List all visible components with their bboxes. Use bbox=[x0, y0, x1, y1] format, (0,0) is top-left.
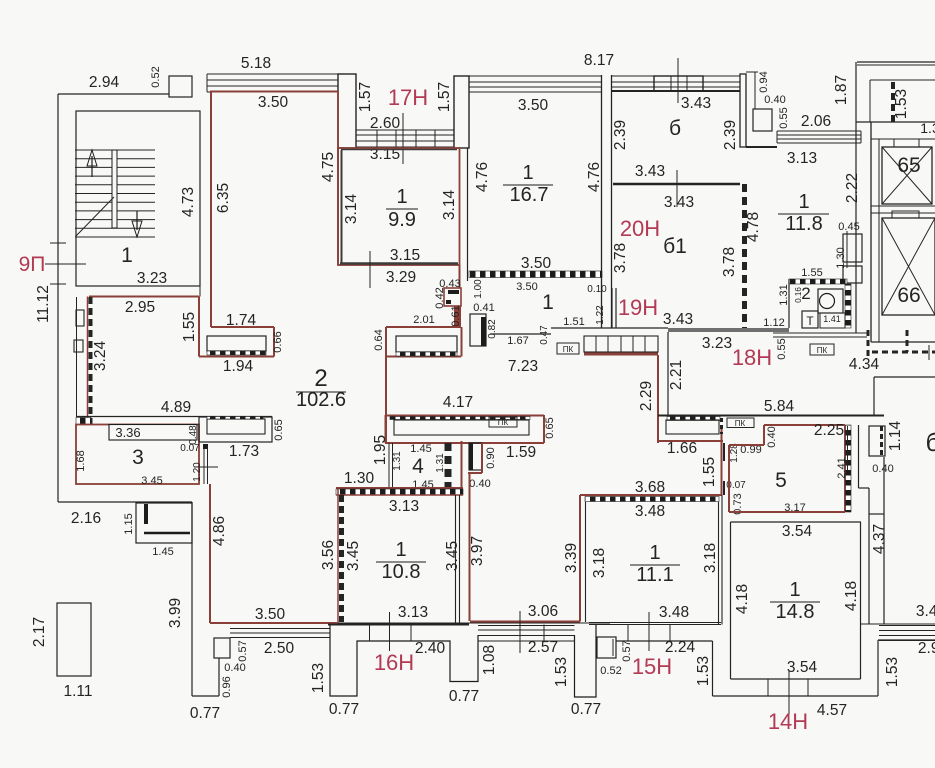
svg-text:3.78: 3.78 bbox=[612, 243, 629, 273]
svg-text:2.25: 2.25 bbox=[814, 422, 844, 439]
svg-text:3.56: 3.56 bbox=[320, 540, 337, 570]
stair diagonal bbox=[76, 197, 114, 236]
bathroom top wall hatched bbox=[789, 279, 847, 284]
box 0.52 bbox=[597, 637, 616, 658]
svg-text:3.17: 3.17 bbox=[784, 502, 805, 514]
band 5.84 window bbox=[666, 420, 719, 434]
wall b/b1 bbox=[613, 183, 740, 186]
svg-text:3.23: 3.23 bbox=[702, 335, 732, 352]
outer wall 3.99 bbox=[191, 502, 193, 696]
column box top-left bbox=[169, 76, 192, 97]
svg-text:0.42: 0.42 bbox=[434, 287, 446, 308]
svg-text:0.40: 0.40 bbox=[764, 94, 785, 106]
room4/hall wall dashed bbox=[445, 443, 452, 495]
svg-text:б1: б1 bbox=[663, 235, 687, 258]
svg-text:2.22: 2.22 bbox=[844, 173, 861, 203]
bathroom right wall hatched bbox=[845, 284, 851, 328]
room 5 red box bbox=[764, 424, 845, 426]
svg-text:0.45: 0.45 bbox=[838, 221, 859, 233]
svg-text:3.06: 3.06 bbox=[528, 603, 558, 620]
svg-text:1: 1 bbox=[649, 542, 660, 564]
red wall 1.66 bbox=[658, 440, 723, 442]
red wall right of 11.1 bbox=[721, 427, 723, 495]
svg-text:1: 1 bbox=[396, 186, 407, 208]
room b1 right wall dashed bbox=[742, 184, 747, 331]
room 11.1 right wall bbox=[718, 502, 720, 625]
svg-text:0.40: 0.40 bbox=[469, 478, 490, 490]
svg-text:3.13: 3.13 bbox=[398, 604, 428, 621]
svg-text:0.77: 0.77 bbox=[571, 701, 601, 718]
room 11.1 top red bbox=[580, 494, 722, 496]
svg-text:3.14: 3.14 bbox=[441, 190, 458, 221]
svg-text:1.94: 1.94 bbox=[223, 358, 254, 375]
wall column C bbox=[740, 74, 746, 147]
red corner 11.1 bbox=[579, 600, 581, 622]
svg-text:1.30: 1.30 bbox=[344, 470, 375, 487]
svg-text:1.14: 1.14 bbox=[887, 421, 904, 452]
window 17N loggia bbox=[356, 130, 454, 147]
outer wall top right bbox=[857, 61, 935, 63]
window 1.73 box bbox=[199, 417, 272, 442]
stair treads bbox=[75, 150, 155, 237]
wall under 1.53 bbox=[856, 121, 935, 123]
svg-text:б: б bbox=[669, 117, 681, 140]
wall 1.22 jamb bbox=[611, 288, 613, 328]
room4 window jambs bbox=[388, 443, 390, 488]
svg-text:1: 1 bbox=[121, 244, 133, 267]
svg-text:1.08: 1.08 bbox=[481, 645, 498, 675]
room 14.8 walls bbox=[730, 522, 732, 679]
dim ticks 15N bbox=[627, 625, 629, 642]
radiator a bbox=[76, 310, 84, 326]
dim ticks 3.06/2.57 bbox=[519, 611, 521, 653]
band 5.84 jamb dash bbox=[720, 418, 723, 434]
18N window bbox=[773, 332, 867, 334]
svg-text:3.43: 3.43 bbox=[663, 311, 693, 328]
hall window 1.67 bbox=[584, 336, 658, 352]
svg-text:3.97: 3.97 bbox=[469, 536, 486, 566]
wall segments x722 bbox=[723, 443, 725, 461]
wall 3.13 top bbox=[746, 146, 777, 148]
free rect 2.17x1.11 bbox=[57, 603, 91, 676]
svg-text:ПК: ПК bbox=[498, 418, 509, 427]
svg-text:1.15: 1.15 bbox=[123, 513, 135, 534]
apt2 top wall 2.95 red bbox=[89, 296, 199, 298]
elevator shaft top bbox=[871, 138, 935, 140]
svg-text:3.18: 3.18 bbox=[702, 543, 719, 573]
svg-text:3: 3 bbox=[132, 446, 144, 469]
window 1.94 sill red bbox=[199, 356, 274, 358]
apt2 wall x338 red bbox=[337, 91, 339, 265]
svg-text:5.84: 5.84 bbox=[764, 398, 795, 415]
apt2 bottom red bbox=[210, 622, 338, 624]
svg-text:2.21: 2.21 bbox=[668, 360, 685, 390]
room b top wall bbox=[612, 90, 740, 92]
svg-text:2.91: 2.91 bbox=[918, 640, 935, 657]
svg-text:3.14: 3.14 bbox=[343, 194, 360, 225]
room 16.7 bottom wall hatched bbox=[469, 271, 602, 278]
hall cupboard bbox=[470, 314, 486, 346]
boxes right of 11.8 bbox=[843, 234, 862, 262]
svg-text:3.36: 3.36 bbox=[115, 425, 140, 440]
lobby left wall bbox=[855, 62, 857, 333]
dim tick 2.60 bbox=[402, 113, 404, 164]
stair room bbox=[76, 111, 200, 286]
window frame b bbox=[654, 76, 703, 91]
dim tick 1.20 bbox=[194, 466, 218, 468]
svg-text:1.55: 1.55 bbox=[801, 267, 822, 279]
svg-text:1.87: 1.87 bbox=[833, 75, 850, 105]
svg-text:3.43: 3.43 bbox=[681, 95, 711, 112]
svg-text:16.7: 16.7 bbox=[510, 184, 549, 206]
top right box bbox=[869, 80, 871, 122]
svg-text:11.12: 11.12 bbox=[35, 285, 52, 323]
red wall 658 bbox=[657, 355, 659, 443]
svg-text:1.11: 1.11 bbox=[63, 683, 92, 700]
dim tick 1.30 bbox=[846, 231, 848, 268]
svg-text:0.55: 0.55 bbox=[776, 338, 788, 359]
PK box hall bbox=[557, 343, 579, 354]
svg-text:1.57: 1.57 bbox=[436, 82, 453, 112]
dashed wall 1.53 bbox=[891, 82, 895, 122]
svg-text:0.66: 0.66 bbox=[272, 331, 284, 352]
svg-text:0.47: 0.47 bbox=[539, 325, 550, 345]
band 4.17 hatch bbox=[390, 417, 530, 420]
svg-text:3.50: 3.50 bbox=[516, 281, 537, 293]
svg-text:1: 1 bbox=[522, 162, 533, 184]
apt2 top wall red bbox=[210, 91, 338, 93]
svg-text:1.95: 1.95 bbox=[372, 435, 389, 465]
svg-text:1.12: 1.12 bbox=[763, 317, 784, 329]
bay 15N outline bbox=[575, 625, 597, 698]
wall gray 19N bbox=[668, 328, 789, 332]
svg-text:0.40: 0.40 bbox=[766, 426, 778, 447]
svg-text:0.77: 0.77 bbox=[190, 705, 220, 722]
balcony lines bottom mid bbox=[478, 625, 575, 627]
band 4.17 red right bbox=[543, 415, 545, 443]
outer step bottom-left bbox=[192, 695, 219, 697]
room 16.7 left wall bbox=[467, 148, 469, 281]
room 11.1 left red bbox=[579, 495, 581, 622]
svg-text:2: 2 bbox=[801, 284, 810, 303]
balcony window 8.17 right part bbox=[612, 76, 740, 91]
svg-text:11.8: 11.8 bbox=[785, 213, 822, 235]
dim tick 3.29 bbox=[369, 251, 371, 288]
room 11.1 top hatch bbox=[585, 497, 719, 502]
stair down arrow bbox=[132, 211, 142, 237]
svg-text:1.00: 1.00 bbox=[473, 279, 484, 299]
svg-text:4.37: 4.37 bbox=[871, 524, 888, 554]
svg-text:19Н: 19Н bbox=[618, 295, 658, 320]
svg-text:3.45: 3.45 bbox=[444, 541, 461, 571]
svg-text:2.39: 2.39 bbox=[722, 120, 739, 150]
band 5.84 top bbox=[658, 415, 884, 417]
svg-text:0.96: 0.96 bbox=[221, 676, 233, 697]
svg-text:1.30: 1.30 bbox=[835, 247, 847, 268]
apt2 west outer line bbox=[76, 297, 78, 417]
svg-text:1.66: 1.66 bbox=[667, 440, 697, 457]
room 5 right hatch bbox=[846, 425, 852, 512]
svg-text:4.17: 4.17 bbox=[443, 394, 473, 411]
apt2 left wall red 6.35 bbox=[210, 91, 212, 327]
svg-text:0.65: 0.65 bbox=[544, 417, 556, 438]
outer boundary top-left bbox=[58, 93, 169, 95]
svg-text:0.90: 0.90 bbox=[485, 447, 497, 468]
svg-text:0.55: 0.55 bbox=[778, 107, 790, 128]
svg-text:4.75: 4.75 bbox=[320, 152, 337, 182]
svg-text:1.53: 1.53 bbox=[695, 656, 712, 686]
svg-text:3.48: 3.48 bbox=[659, 604, 689, 621]
apt2 wall x199 red bbox=[198, 297, 200, 357]
svg-text:1.41: 1.41 bbox=[823, 314, 841, 324]
room 11.1 bottom bbox=[589, 622, 721, 624]
svg-text:0.65: 0.65 bbox=[273, 419, 285, 440]
svg-text:1.74: 1.74 bbox=[226, 312, 257, 329]
room3 top window bbox=[109, 425, 197, 441]
svg-text:2.01: 2.01 bbox=[413, 314, 434, 326]
svg-text:1.51: 1.51 bbox=[563, 316, 584, 328]
room 9.9 red box bbox=[338, 148, 460, 265]
elevator 65 cab bbox=[882, 147, 932, 204]
svg-text:2.06: 2.06 bbox=[801, 113, 831, 130]
svg-text:0.40: 0.40 bbox=[872, 463, 893, 475]
svg-text:3.45: 3.45 bbox=[141, 475, 162, 487]
room 10.8 left dashed bbox=[337, 488, 339, 623]
svg-text:3.54: 3.54 bbox=[787, 659, 818, 676]
box 0.55 bbox=[753, 109, 772, 131]
svg-text:1.68: 1.68 bbox=[75, 450, 87, 471]
svg-text:1: 1 bbox=[789, 579, 800, 601]
svg-text:3.43: 3.43 bbox=[635, 163, 665, 180]
svg-text:1.55: 1.55 bbox=[701, 457, 718, 487]
svg-text:5.18: 5.18 bbox=[241, 55, 271, 72]
svg-text:ПК: ПК bbox=[735, 419, 746, 428]
svg-text:2.94: 2.94 bbox=[89, 74, 120, 91]
svg-text:3.23: 3.23 bbox=[137, 270, 167, 287]
svg-text:11.1: 11.1 bbox=[636, 564, 673, 586]
balcony lines bottom left bbox=[230, 628, 330, 630]
band 4.17 red top bbox=[385, 415, 544, 417]
svg-text:2.39: 2.39 bbox=[612, 120, 629, 150]
svg-text:1: 1 bbox=[542, 291, 554, 314]
svg-text:4.76: 4.76 bbox=[474, 162, 491, 192]
svg-text:4.57: 4.57 bbox=[817, 702, 847, 719]
svg-text:0.10: 0.10 bbox=[587, 284, 607, 295]
room 10.8 right wall bbox=[455, 495, 457, 623]
svg-text:3.50: 3.50 bbox=[255, 606, 286, 623]
band 4.17 window bbox=[394, 420, 529, 435]
svg-text:1.31: 1.31 bbox=[392, 451, 403, 471]
svg-text:1: 1 bbox=[395, 539, 406, 561]
svg-text:3.68: 3.68 bbox=[635, 479, 665, 496]
svg-text:1.73: 1.73 bbox=[229, 443, 259, 460]
svg-text:5: 5 bbox=[775, 469, 787, 492]
stair stringer bbox=[112, 150, 117, 228]
box right top bbox=[869, 426, 885, 456]
right wall bottom bbox=[861, 623, 935, 625]
svg-text:2.50: 2.50 bbox=[264, 640, 295, 657]
PK box 18N bbox=[810, 344, 834, 355]
svg-text:0.52: 0.52 bbox=[150, 66, 162, 87]
room b1 bottom wall bbox=[612, 327, 668, 329]
room 3 red box bbox=[76, 425, 199, 485]
svg-text:1.31: 1.31 bbox=[778, 284, 790, 305]
svg-text:7.23: 7.23 bbox=[508, 358, 538, 375]
wall column B bbox=[454, 76, 469, 148]
svg-text:1.31: 1.31 bbox=[435, 453, 446, 473]
svg-text:0.52: 0.52 bbox=[600, 665, 621, 677]
svg-text:1.53: 1.53 bbox=[553, 657, 570, 687]
svg-text:4.34: 4.34 bbox=[849, 356, 880, 373]
room 9.9 inner walls dark bbox=[341, 150, 343, 263]
wall joint below stair bbox=[199, 286, 201, 297]
svg-text:0.40: 0.40 bbox=[224, 662, 245, 674]
svg-text:14Н: 14Н bbox=[768, 709, 808, 734]
svg-text:2.95: 2.95 bbox=[125, 299, 155, 316]
svg-text:3.18: 3.18 bbox=[591, 548, 608, 578]
svg-text:0.41: 0.41 bbox=[473, 302, 494, 314]
dim ticks 14.8 bottom bbox=[767, 679, 769, 696]
svg-text:9.9: 9.9 bbox=[388, 209, 416, 231]
svg-text:0.94: 0.94 bbox=[758, 71, 770, 92]
svg-text:б: б bbox=[926, 427, 935, 457]
svg-text:3.50: 3.50 bbox=[518, 97, 549, 114]
apt2 jog red bbox=[211, 326, 274, 328]
svg-text:4.18: 4.18 bbox=[843, 581, 860, 611]
apt2 window 2.01 sill red bbox=[386, 356, 461, 358]
svg-text:2.57: 2.57 bbox=[528, 639, 558, 656]
svg-text:2.41: 2.41 bbox=[836, 457, 848, 478]
15N lower wall bbox=[616, 640, 713, 642]
svg-text:3.99: 3.99 bbox=[167, 598, 184, 628]
hall wall 1.67 bbox=[490, 333, 551, 335]
svg-text:3.54: 3.54 bbox=[782, 523, 813, 540]
svg-text:0.07: 0.07 bbox=[180, 443, 200, 454]
svg-text:4: 4 bbox=[412, 455, 424, 478]
red corner 0.40 bbox=[468, 472, 482, 474]
hall wall 1.51 bbox=[551, 327, 612, 329]
svg-text:1: 1 bbox=[798, 191, 809, 213]
svg-text:102.6: 102.6 bbox=[296, 389, 346, 411]
svg-text:2.29: 2.29 bbox=[638, 381, 655, 411]
svg-text:1.53: 1.53 bbox=[310, 663, 327, 693]
shaft bottom bbox=[871, 341, 935, 343]
wall column A bbox=[338, 74, 356, 148]
step 0.94 bbox=[754, 72, 756, 109]
label 19N leader bbox=[308, 622, 610, 624]
red divider 3.97 bbox=[469, 473, 471, 621]
apt2 red wall 4.86 bbox=[209, 484, 211, 623]
wall 4.89 bbox=[76, 416, 272, 418]
svg-text:10.8: 10.8 bbox=[382, 561, 421, 583]
apt2 wall x459 red bbox=[459, 265, 461, 288]
band 5.84 hatch bbox=[667, 417, 720, 421]
shaft middle walls bbox=[871, 205, 935, 207]
svg-text:0.57: 0.57 bbox=[237, 640, 249, 661]
wall tick 11.12 lower bbox=[50, 283, 66, 285]
svg-text:ПК: ПК bbox=[817, 346, 828, 355]
room 10.8 top red2 bbox=[336, 494, 463, 496]
room 10.8 bottom bbox=[328, 624, 469, 626]
svg-text:1.59: 1.59 bbox=[506, 444, 536, 461]
wall tick 11.12 upper bbox=[50, 242, 66, 244]
svg-text:3.50: 3.50 bbox=[521, 255, 552, 272]
svg-text:6.35: 6.35 bbox=[215, 183, 232, 213]
svg-text:1.67: 1.67 bbox=[507, 335, 528, 347]
svg-text:0.77: 0.77 bbox=[329, 701, 359, 718]
svg-text:66: 66 bbox=[897, 284, 920, 307]
PK box 4.17 bbox=[489, 417, 517, 427]
bottom step boxes bbox=[214, 638, 230, 658]
dim tick 3.43 bbox=[676, 170, 678, 207]
svg-text:3.13: 3.13 bbox=[787, 150, 817, 167]
elevator 66 door bbox=[892, 211, 919, 218]
svg-text:18Н: 18Н bbox=[732, 345, 772, 370]
svg-text:2.16: 2.16 bbox=[71, 510, 101, 527]
apt2 window 2.01 red frame bbox=[386, 326, 461, 328]
svg-text:1.53: 1.53 bbox=[884, 657, 901, 687]
bay 16N outline bbox=[330, 625, 478, 697]
elevator 65 door bbox=[894, 139, 919, 147]
wall 16.7/b double bbox=[601, 75, 603, 328]
svg-text:0.61: 0.61 bbox=[450, 305, 462, 326]
right structure bbox=[873, 377, 875, 415]
room3 jamb bbox=[203, 444, 208, 449]
svg-text:9П: 9П bbox=[19, 253, 46, 276]
toilet bbox=[818, 289, 843, 313]
svg-text:3.13: 3.13 bbox=[389, 498, 419, 515]
svg-text:65: 65 bbox=[897, 154, 920, 177]
sink box T bbox=[802, 311, 818, 328]
window 0.90 box bbox=[469, 443, 482, 470]
svg-text:15Н: 15Н bbox=[632, 654, 672, 679]
apt2 wall below door red bbox=[454, 306, 461, 327]
svg-text:0.64: 0.64 bbox=[373, 329, 385, 350]
svg-text:1.45: 1.45 bbox=[152, 546, 173, 558]
svg-text:0.82: 0.82 bbox=[487, 319, 498, 339]
svg-text:4.86: 4.86 bbox=[211, 516, 228, 546]
red wall 3.06 bbox=[470, 621, 580, 623]
svg-text:1.20: 1.20 bbox=[192, 462, 203, 482]
svg-text:1.22: 1.22 bbox=[595, 305, 606, 325]
svg-text:4.89: 4.89 bbox=[161, 399, 191, 416]
svg-text:3.43: 3.43 bbox=[916, 603, 935, 620]
svg-text:2.60: 2.60 bbox=[370, 115, 401, 132]
svg-text:4.18: 4.18 bbox=[734, 584, 751, 614]
apt2 dashed west wall bbox=[87, 297, 89, 426]
svg-text:3.50: 3.50 bbox=[258, 94, 289, 111]
hall window sill red bbox=[584, 353, 658, 356]
PK box 5.84 bbox=[727, 418, 754, 428]
svg-text:1.55: 1.55 bbox=[181, 312, 198, 342]
wall 2.21 bbox=[667, 332, 669, 416]
dim ticks 16N bbox=[369, 625, 371, 642]
svg-text:3.24: 3.24 bbox=[92, 341, 109, 372]
svg-text:2: 2 bbox=[314, 365, 327, 392]
svg-text:Т: Т bbox=[806, 314, 814, 328]
band 4.17 red left bbox=[385, 415, 387, 443]
svg-text:17Н: 17Н bbox=[388, 85, 428, 110]
svg-text:16Н: 16Н bbox=[374, 650, 414, 675]
svg-text:4.76: 4.76 bbox=[586, 162, 603, 192]
svg-text:3.48: 3.48 bbox=[635, 503, 665, 520]
apt2 window 2.01 bbox=[396, 336, 457, 352]
svg-text:1.57: 1.57 bbox=[357, 82, 374, 112]
room 10.8 top hatch bbox=[336, 489, 463, 495]
svg-text:4.73: 4.73 bbox=[180, 187, 197, 217]
balcony window 5.18 bbox=[207, 74, 338, 92]
svg-text:3.43: 3.43 bbox=[664, 194, 694, 211]
